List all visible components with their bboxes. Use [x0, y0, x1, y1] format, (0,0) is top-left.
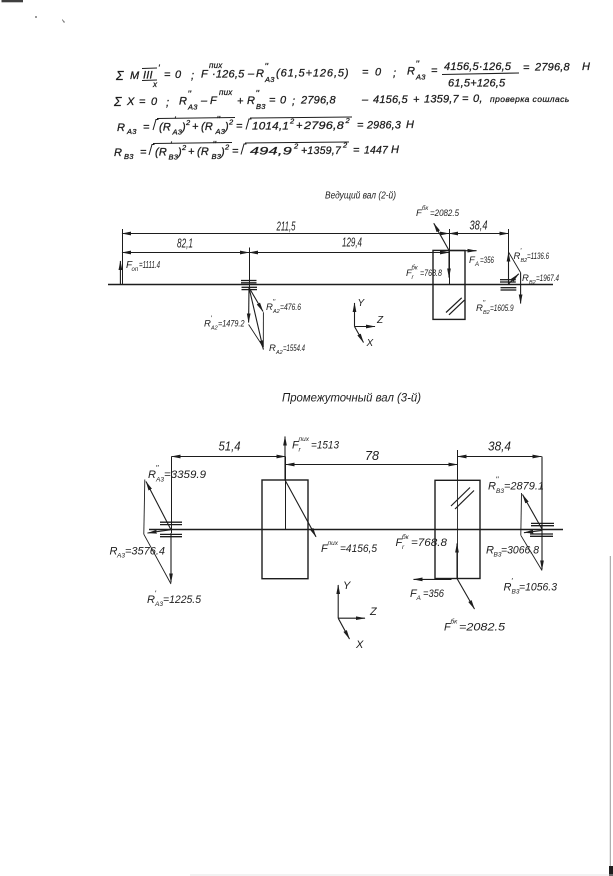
svg-text:1014,1: 1014,1	[252, 121, 289, 133]
svg-text:2: 2	[181, 143, 187, 152]
svg-text:38,4: 38,4	[488, 439, 511, 454]
svg-text:x: x	[152, 80, 158, 89]
bearing B reaction R'' arrow down	[520, 273, 522, 304]
svg-text:=2082.5: =2082.5	[430, 208, 460, 219]
label F_r_bk = 768.8	[406, 266, 443, 282]
scan corner mark bottom-right	[609, 866, 613, 876]
svg-text:Н: Н	[391, 144, 399, 156]
svg-text:R: R	[114, 147, 122, 159]
svg-text:В2: В2	[483, 310, 490, 316]
svg-text:=356: =356	[480, 255, 494, 266]
svg-text:=1605.9: =1605.9	[490, 303, 514, 314]
svg-text:–: –	[247, 68, 255, 80]
svg-text:Y: Y	[343, 580, 351, 592]
svg-text:F: F	[210, 95, 218, 107]
dimension 51,4	[172, 456, 286, 458]
gear 2 centre line	[457, 450, 459, 480]
svg-text:1359,7: 1359,7	[424, 94, 460, 106]
svg-text:R: R	[522, 273, 529, 284]
svg-text:X: X	[366, 338, 374, 349]
bearing A symbol ticks	[241, 281, 257, 290]
svg-text:=: =	[362, 67, 369, 79]
gear hatch mark 1	[446, 298, 462, 313]
svg-text:'': ''	[256, 89, 260, 99]
svg-text:А3: А3	[154, 601, 163, 608]
svg-text:'': ''	[156, 464, 160, 473]
bearing A3 parallelogram side bottom	[144, 534, 171, 584]
svg-text:129,4: 129,4	[342, 235, 362, 250]
svg-text:(R: (R	[201, 121, 213, 133]
svg-text:(61,5+126,5): (61,5+126,5)	[276, 68, 350, 80]
equation line 1: sum of moments about III axis	[115, 59, 438, 89]
dimension 38,4 upper	[449, 233, 509, 235]
svg-text:=: =	[462, 93, 469, 105]
svg-text:'': ''	[265, 62, 269, 72]
svg-text:В3: В3	[256, 102, 266, 111]
svg-text:494,9: 494,9	[250, 146, 292, 158]
force arrow F_r_pih 1513 up	[284, 437, 286, 481]
dimension 38,4 lower	[458, 456, 542, 458]
svg-text:X: X	[355, 639, 364, 651]
label RA = 1554.4	[269, 343, 305, 356]
svg-text:R: R	[407, 66, 415, 78]
scan speck 2	[62, 19, 65, 23]
svg-text:А3: А3	[415, 73, 426, 82]
svg-text:2: 2	[345, 116, 351, 125]
svg-text:=2082.5: =2082.5	[459, 622, 506, 634]
svg-text:=1554.4: =1554.4	[283, 343, 305, 354]
svg-text:проверка сошлась: проверка сошлась	[490, 94, 570, 104]
svg-text:'': ''	[217, 115, 221, 125]
svg-text:=: =	[143, 122, 150, 134]
bearing B resultant R arrow	[509, 274, 519, 284]
svg-text:'': ''	[496, 476, 500, 485]
svg-text:(R: (R	[197, 146, 209, 158]
svg-text:2796,8: 2796,8	[303, 120, 345, 132]
force arrow F_bk 2082,5 diagonal down	[457, 579, 475, 610]
label R''A3 = 3359.9	[148, 464, 206, 484]
svg-text:2: 2	[293, 142, 299, 151]
svg-text:А2: А2	[275, 350, 283, 356]
bearing B3 symbol ticks	[530, 523, 554, 536]
svg-text:=1056.3: =1056.3	[519, 582, 558, 594]
svg-text:X: X	[126, 96, 135, 108]
gear hatch mark 2	[449, 300, 465, 315]
gear 2 hatch mark 2	[455, 491, 474, 510]
label F_op = 1111,4	[126, 260, 160, 273]
label F_r_pih = 1513	[292, 436, 340, 454]
svg-text:А2: А2	[210, 326, 218, 332]
label R''B3 = 2879.1	[488, 476, 544, 496]
svg-text:51,4: 51,4	[219, 439, 241, 454]
svg-text:+: +	[413, 94, 420, 106]
bearing A parallelogram side bottom	[249, 325, 264, 348]
svg-text:2796,8: 2796,8	[534, 62, 571, 74]
svg-text:0: 0	[375, 67, 382, 79]
label RB = 1967.4	[522, 273, 559, 286]
svg-text:–: –	[361, 94, 369, 106]
label F_bk = 2082.5	[444, 618, 506, 634]
svg-text:А3: А3	[155, 477, 164, 484]
bearing A3 symbol ticks	[160, 522, 182, 537]
svg-text:В3: В3	[124, 152, 134, 161]
svg-text:0,: 0,	[473, 93, 483, 105]
svg-text:=: =	[139, 96, 146, 108]
bearing B3 resultant R arrow left	[524, 531, 542, 533]
label F_A = 356	[410, 588, 445, 602]
svg-text:0: 0	[280, 95, 287, 107]
gear wheel helical pinion rectangle	[262, 480, 308, 579]
gear wheel bevel rectangle	[435, 480, 480, 578]
svg-text:=1111.4: =1111.4	[139, 260, 160, 271]
svg-text:=: =	[140, 147, 147, 159]
svg-text:2: 2	[342, 141, 348, 150]
svg-text:(R: (R	[155, 147, 167, 159]
svg-text:бк: бк	[402, 533, 410, 541]
label R'B = 1136.6	[514, 248, 550, 264]
extension line bearing A3	[171, 457, 173, 523]
svg-text:'': ''	[213, 140, 217, 150]
svg-text:': '	[174, 115, 176, 125]
svg-text:·126,5: ·126,5	[212, 69, 245, 81]
bearing A3 reaction R'' arrow up-left	[146, 482, 171, 530]
svg-text:211,5: 211,5	[276, 219, 296, 234]
svg-text:=1479.2: =1479.2	[218, 319, 245, 330]
equation line 2: sum of forces along X	[113, 88, 570, 112]
svg-text:А2: А2	[272, 309, 280, 315]
svg-text:2: 2	[224, 143, 230, 152]
svg-text:=: =	[353, 145, 360, 157]
coordinate triad 2 Y axis	[337, 585, 339, 618]
svg-text:=1136.6: =1136.6	[527, 251, 549, 262]
label RA3 = 3576.4	[110, 546, 166, 560]
svg-text:+: +	[237, 96, 244, 108]
svg-text:=: =	[232, 146, 239, 158]
svg-text:61,5+126,5: 61,5+126,5	[448, 78, 506, 90]
svg-text:А: А	[416, 595, 421, 602]
dimension 211,5	[122, 233, 449, 235]
svg-text:;: ;	[292, 96, 295, 108]
svg-text:=1513: =1513	[311, 440, 340, 452]
svg-text:1447: 1447	[364, 145, 389, 157]
svg-text:=: =	[431, 65, 438, 77]
svg-text:R: R	[269, 343, 276, 354]
bearing A reaction R'' arrow	[249, 288, 263, 312]
label R'B3 = 1056.3	[504, 577, 558, 596]
svg-text:': '	[158, 63, 160, 73]
scan edge line right	[610, 556, 611, 876]
svg-text:=3576.4: =3576.4	[125, 546, 165, 558]
svg-text:=: =	[269, 95, 276, 107]
force arrow F_op	[119, 261, 121, 285]
gear wheel (bevel pinion) rectangle	[433, 250, 465, 319]
label R'A = 1479.2	[204, 316, 245, 332]
svg-text:=768.8: =768.8	[420, 268, 443, 279]
gear 2 centre line inside	[457, 480, 459, 578]
svg-text:Σ: Σ	[113, 95, 122, 109]
svg-text:M: M	[130, 70, 140, 82]
scan bottom hairline	[190, 874, 613, 876]
coordinate triad 1 X axis	[355, 327, 364, 343]
svg-text:=1967.4: =1967.4	[536, 273, 559, 284]
label R''B = 1605.9	[476, 300, 514, 316]
shaft 2 axis line	[108, 284, 553, 286]
svg-text:F: F	[201, 69, 209, 81]
svg-text:': '	[170, 140, 172, 150]
svg-text:2: 2	[289, 117, 295, 126]
svg-text:2986,3: 2986,3	[366, 120, 402, 132]
bearing B reaction R' arrow up	[508, 253, 510, 285]
dimension 78	[286, 464, 458, 466]
svg-text:=4156,5: =4156,5	[340, 543, 378, 555]
dimension 129,4	[249, 252, 449, 254]
svg-text:Н: Н	[582, 61, 590, 73]
dimension 82,1	[122, 252, 249, 254]
svg-text:0: 0	[151, 96, 158, 108]
label F_A = 356	[469, 255, 494, 268]
gear 1 centre line	[285, 457, 287, 530]
svg-text:Ведущий вал (2-й): Ведущий вал (2-й)	[325, 191, 396, 202]
svg-text:Z: Z	[376, 315, 384, 326]
coordinate triad 2 X axis	[338, 618, 349, 639]
svg-text:0: 0	[175, 69, 182, 81]
svg-text:4156,5·126,5: 4156,5·126,5	[444, 61, 512, 73]
bearing A parallelogram side right	[262, 312, 264, 347]
label R''A = 476.6	[266, 299, 302, 315]
svg-text:А3: А3	[126, 127, 137, 136]
bearing A3 centre line	[171, 522, 173, 533]
svg-text:=3066.8: =3066.8	[501, 545, 540, 557]
bearing B3 parallelogram side left	[520, 493, 523, 535]
label RB3 = 3066.8	[486, 545, 540, 559]
bearing B parallelogram top side	[509, 252, 521, 273]
svg-text:38,4: 38,4	[470, 218, 488, 233]
svg-text:=: =	[236, 121, 243, 133]
svg-text:Промежуточный вал (3-й): Промежуточный вал (3-й)	[282, 393, 421, 405]
bearing A reaction R' arrow	[248, 288, 250, 323]
label F_bk = 2082.5	[416, 206, 460, 219]
label R'A3 = 1225.5	[147, 590, 202, 609]
svg-text:+: +	[192, 121, 199, 133]
svg-text:R: R	[179, 96, 187, 108]
svg-text:=: =	[164, 69, 171, 81]
svg-text:2796,8: 2796,8	[300, 95, 337, 107]
force arrow F_bk 2082,5	[434, 223, 449, 250]
scan speck 1	[35, 16, 37, 18]
svg-text:82,1: 82,1	[177, 236, 193, 251]
svg-text:пих: пих	[219, 88, 233, 97]
svg-text:'': ''	[416, 59, 420, 69]
svg-text:Σ: Σ	[115, 69, 124, 83]
force arrow F_A 356	[440, 250, 477, 252]
svg-text:(R: (R	[159, 122, 171, 134]
extension line mid bearing A	[249, 248, 251, 288]
bearing A resultant R arrow	[249, 288, 263, 350]
scan artifact top-left bar	[2, 0, 24, 2]
svg-text:=2879.1: =2879.1	[504, 481, 544, 493]
bearing A3 parallelogram side left	[144, 480, 145, 535]
bearing A3 reaction R' arrow down	[170, 533, 172, 583]
bearing B symbol ticks	[500, 280, 516, 290]
svg-text:R: R	[256, 68, 264, 80]
extension line left end	[122, 229, 124, 285]
label F_pih = 4156,5	[321, 540, 378, 555]
svg-text:=768.8: =768.8	[411, 537, 448, 549]
force arrow F_r_bk 768,8 up	[456, 544, 458, 579]
svg-text:4156,5: 4156,5	[373, 94, 409, 106]
svg-text:Z: Z	[369, 606, 378, 618]
shaft 3 axis line	[149, 529, 563, 531]
svg-text:R: R	[117, 122, 125, 134]
svg-text:–: –	[200, 95, 208, 107]
force arrow F_A 356 left	[414, 578, 452, 580]
svg-text:2: 2	[185, 118, 191, 127]
centre line gear	[449, 229, 451, 285]
svg-text:'': ''	[188, 89, 192, 99]
bearing B3 parallelogram side bottom	[521, 535, 542, 570]
force arrow F_pih 4156,5 diagonal	[285, 480, 316, 537]
svg-text:2: 2	[228, 118, 234, 127]
triad 1 labels	[358, 298, 385, 349]
svg-text:+1359,7: +1359,7	[301, 145, 342, 157]
svg-text:А: А	[474, 262, 479, 268]
coordinate triad 1 Z axis	[355, 326, 376, 328]
svg-text:=476.6: =476.6	[280, 302, 302, 313]
svg-text:;: ;	[166, 97, 169, 109]
label F_r_bk = 768.8	[396, 533, 448, 551]
svg-text:=: =	[357, 120, 364, 132]
svg-text:А3: А3	[264, 75, 275, 84]
svg-text:оп: оп	[132, 267, 139, 273]
svg-text:бк: бк	[451, 618, 459, 626]
extension line right bearing B	[508, 229, 510, 284]
svg-text:78: 78	[365, 448, 380, 463]
bearing A3 resultant R arrow left	[148, 530, 172, 533]
gear 2 hatch mark 1	[451, 488, 470, 507]
svg-text:;: ;	[393, 68, 396, 80]
svg-text:В2: В2	[529, 280, 536, 286]
extension line + R' arrow bearing B3	[541, 457, 543, 570]
svg-text:=1225.5: =1225.5	[163, 594, 202, 606]
svg-text:=: =	[523, 62, 530, 74]
svg-text:Н: Н	[406, 119, 414, 131]
svg-text:=356: =356	[423, 588, 445, 600]
coordinate triad 2 Z axis	[338, 617, 365, 619]
triad 2 labels	[343, 580, 378, 651]
equation line 1 fraction	[442, 61, 590, 90]
equation line 3: resultant RA3	[117, 115, 414, 137]
svg-text:А3: А3	[116, 553, 125, 560]
coordinate triad 1 Y axis	[354, 303, 356, 327]
svg-text:+: +	[188, 146, 195, 158]
svg-text:R: R	[247, 95, 255, 107]
bearing B3 reaction R'' arrow up-left	[523, 495, 543, 530]
svg-text:=3359.9: =3359.9	[164, 469, 206, 481]
equation line 4: resultant RB3	[114, 140, 399, 162]
force arrow F_r_bk 768,8	[448, 250, 450, 277]
svg-text:А3: А3	[187, 103, 198, 112]
svg-text:;: ;	[191, 70, 194, 82]
svg-text:пих: пих	[299, 436, 310, 443]
svg-text:+: +	[296, 120, 303, 132]
svg-text:пих: пих	[328, 540, 339, 547]
